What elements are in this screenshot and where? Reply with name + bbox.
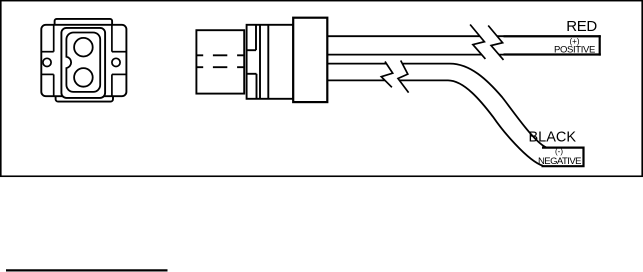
svg-text:NEGATIVE: NEGATIVE	[538, 156, 581, 167]
svg-text:POSITIVE: POSITIVE	[554, 45, 595, 56]
svg-text:RED: RED	[566, 18, 597, 35]
svg-text:(-): (-)	[555, 147, 563, 156]
svg-text:BLACK: BLACK	[529, 129, 577, 145]
